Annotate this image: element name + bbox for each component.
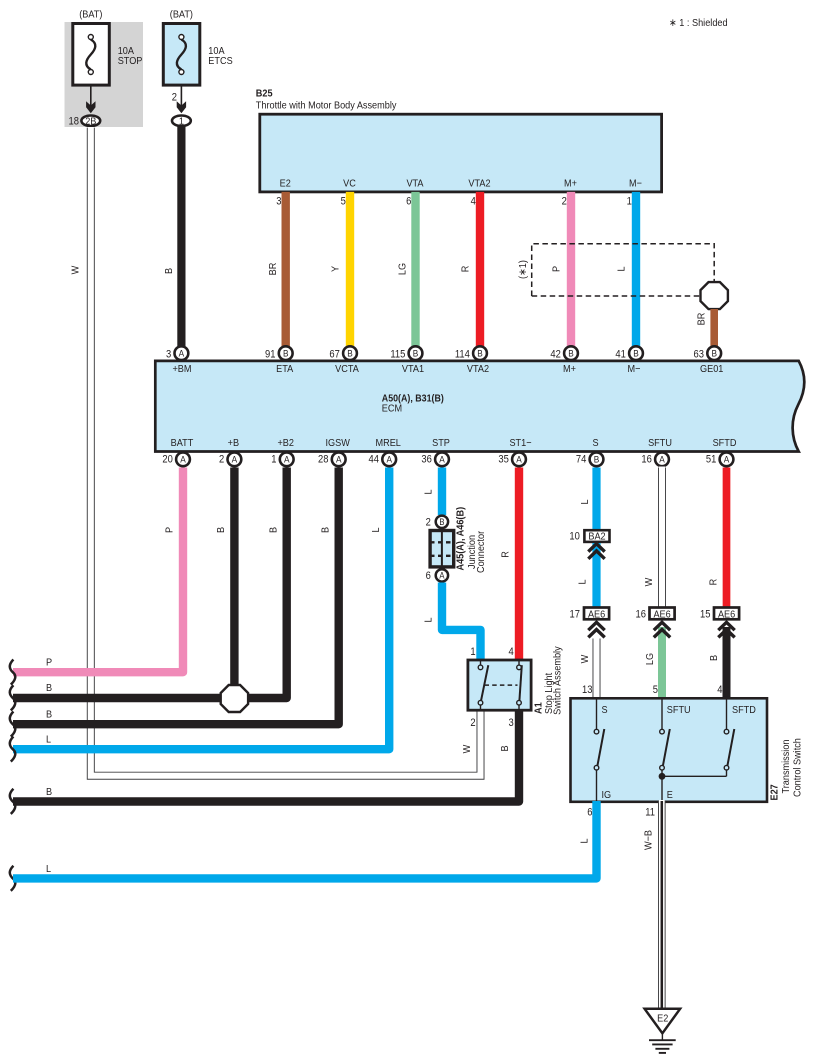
ECM bottom pin labels xyxy=(171,437,737,449)
ECM box xyxy=(155,361,804,452)
switch SFTD xyxy=(726,699,728,729)
svg-text:6: 6 xyxy=(406,196,411,208)
svg-text:W: W xyxy=(643,578,655,587)
wire BR E2->ETA xyxy=(282,192,290,347)
wire B from fuse ETCS to ECM +BM xyxy=(177,126,185,347)
svg-text:GE01: GE01 xyxy=(700,363,724,375)
svg-text:VC: VC xyxy=(343,178,356,190)
svg-text:3: 3 xyxy=(508,717,513,729)
svg-text:BR: BR xyxy=(695,312,707,325)
svg-text:17: 17 xyxy=(570,608,580,620)
svg-text:VTA2: VTA2 xyxy=(468,178,490,190)
svg-text:A: A xyxy=(439,571,444,581)
svg-text:BA2: BA2 xyxy=(588,531,605,543)
svg-text:LG: LG xyxy=(397,263,409,275)
wire L MREL xyxy=(13,468,389,750)
ECM top pin circles xyxy=(166,346,188,360)
wire LG VTA->VTA1 xyxy=(411,192,419,347)
svg-text:B: B xyxy=(708,655,720,661)
connector oval 2B (pin 18) xyxy=(69,115,101,127)
svg-text:41: 41 xyxy=(615,349,625,361)
svg-text:2: 2 xyxy=(172,92,177,104)
svg-text:67: 67 xyxy=(329,349,339,361)
svg-text:6: 6 xyxy=(426,570,431,582)
svg-text:SFTU: SFTU xyxy=(648,437,672,449)
B25 pin numbers xyxy=(276,196,632,208)
svg-text:AE6: AE6 xyxy=(588,608,605,620)
svg-text:W−B: W−B xyxy=(642,830,654,850)
svg-text:15: 15 xyxy=(700,608,710,620)
fuse F1 lead and arrow xyxy=(86,86,95,113)
svg-text:ST1−: ST1− xyxy=(509,437,531,449)
svg-text:A: A xyxy=(724,455,730,466)
svg-text:B: B xyxy=(267,527,279,533)
svg-text:4: 4 xyxy=(471,196,476,208)
svg-text:IG: IG xyxy=(602,789,612,801)
svg-text:P: P xyxy=(164,527,176,533)
svg-text:BATT: BATT xyxy=(171,437,194,449)
svg-text:E27: E27 xyxy=(769,784,781,800)
svg-text:VTA: VTA xyxy=(406,178,423,190)
svg-text:18: 18 xyxy=(69,115,79,127)
svg-text:3: 3 xyxy=(276,196,281,208)
svg-text:6: 6 xyxy=(587,807,592,819)
svg-text:L: L xyxy=(370,527,382,532)
wire end L2 xyxy=(10,863,51,891)
svg-text:B: B xyxy=(413,349,419,360)
svg-text:M+: M+ xyxy=(563,363,576,375)
svg-text:2: 2 xyxy=(470,717,475,729)
svg-text:L: L xyxy=(423,489,435,494)
svg-text:A: A xyxy=(284,455,290,466)
shield octagon xyxy=(701,282,728,309)
svg-text:M−: M− xyxy=(629,178,642,190)
svg-text:16: 16 xyxy=(636,608,646,620)
svg-text:A: A xyxy=(232,455,238,466)
svg-text:M−: M− xyxy=(628,363,641,375)
svg-text:(∗1): (∗1) xyxy=(517,260,529,279)
wire B horizontal to +B octagon xyxy=(13,694,234,702)
svg-text:115: 115 xyxy=(390,349,405,361)
svg-text:1: 1 xyxy=(271,454,276,466)
ground E2 xyxy=(645,1009,681,1053)
svg-text:L: L xyxy=(579,499,591,504)
wire end B1 xyxy=(10,682,52,710)
transmission control switch E27 box xyxy=(571,684,768,802)
chevrons below BA2 xyxy=(588,544,604,559)
svg-text:A45(A), A46(B): A45(A), A46(B) xyxy=(455,507,467,571)
svg-text:(BAT): (BAT) xyxy=(170,9,193,21)
svg-text:B: B xyxy=(46,709,52,721)
svg-text:51: 51 xyxy=(706,454,716,466)
svg-text:B: B xyxy=(633,349,639,360)
svg-text:42: 42 xyxy=(550,349,560,361)
svg-text:R: R xyxy=(707,578,719,585)
wire L STP lower to stop light switch xyxy=(442,583,481,660)
svg-text:44: 44 xyxy=(369,454,379,466)
svg-text:Y: Y xyxy=(330,266,342,272)
wire L from IG pin 6 xyxy=(13,801,597,878)
svg-text:E: E xyxy=(667,789,673,801)
svg-text:M+: M+ xyxy=(564,178,577,190)
svg-text:W: W xyxy=(579,655,591,664)
switch SFTU xyxy=(661,699,663,729)
svg-text:91: 91 xyxy=(265,349,275,361)
svg-text:A: A xyxy=(439,455,445,466)
svg-text:Control Switch: Control Switch xyxy=(792,738,804,797)
svg-text:B: B xyxy=(594,455,600,466)
svg-text:P: P xyxy=(46,657,52,669)
svg-text:2: 2 xyxy=(219,454,224,466)
svg-text:+B2: +B2 xyxy=(277,437,294,449)
wire R VTA2->VTA2 xyxy=(476,192,484,347)
svg-text:B: B xyxy=(568,349,574,360)
svg-text:36: 36 xyxy=(421,454,431,466)
svg-text:E2: E2 xyxy=(280,178,291,190)
connector oval 1 xyxy=(172,115,191,127)
wire W from fuse STOP to stop light switch pin 2 xyxy=(91,127,481,776)
svg-text:LG: LG xyxy=(644,653,656,665)
svg-text:VTA2: VTA2 xyxy=(467,363,489,375)
svg-text:74: 74 xyxy=(576,454,586,466)
svg-text:63: 63 xyxy=(694,349,704,361)
svg-text:B: B xyxy=(46,786,52,798)
wire L M- xyxy=(632,192,640,347)
svg-text:B: B xyxy=(283,349,289,360)
wire B +B2 xyxy=(240,468,287,699)
svg-text:STP: STP xyxy=(432,437,450,449)
pin numbers below transmission switch xyxy=(587,807,655,819)
ECM top pin labels xyxy=(172,363,723,375)
svg-text:B: B xyxy=(46,682,52,694)
wire L S to BA2 xyxy=(592,468,600,531)
svg-text:1: 1 xyxy=(627,196,632,208)
wire W AE6 to transmission S pin 13 xyxy=(593,638,601,699)
fuse STOP gray background xyxy=(65,22,144,127)
svg-text:B: B xyxy=(439,517,444,527)
svg-text:B: B xyxy=(347,349,353,360)
wire R ST1- to stop light switch pin 4 xyxy=(515,468,523,660)
wire B IGSW xyxy=(13,468,339,725)
junction octagon at +B xyxy=(221,685,248,712)
wire B AE6 to SFTD pin 4 xyxy=(723,627,731,699)
svg-text:W: W xyxy=(461,745,473,754)
svg-text:B: B xyxy=(319,527,331,533)
svg-text:A: A xyxy=(516,455,522,466)
svg-text:+BM: +BM xyxy=(172,363,191,375)
fuse F2 lead, pin 2 and arrow xyxy=(172,86,186,113)
svg-text:Switch Assembly: Switch Assembly xyxy=(552,646,564,715)
svg-text:VTA1: VTA1 xyxy=(402,363,424,375)
wire W-B from E pin 11 to ground xyxy=(658,800,666,1009)
svg-text:B: B xyxy=(477,349,483,360)
svg-text:ECM: ECM xyxy=(382,402,402,414)
B25 throttle body box xyxy=(256,88,662,192)
fuse F2 10A ETCS xyxy=(163,9,232,86)
svg-text:2: 2 xyxy=(426,517,431,529)
svg-text:Connector: Connector xyxy=(475,530,487,573)
svg-text:B: B xyxy=(711,349,717,360)
svg-text:P: P xyxy=(551,266,563,272)
svg-text:L: L xyxy=(423,617,435,622)
svg-text:B: B xyxy=(499,745,511,751)
wire P M+ xyxy=(567,192,575,347)
svg-text:SFTD: SFTD xyxy=(713,437,737,449)
connector BA2 pin 10 xyxy=(569,530,609,542)
svg-text:3: 3 xyxy=(166,349,171,361)
svg-text:13: 13 xyxy=(582,684,592,696)
svg-text:2: 2 xyxy=(562,196,567,208)
svg-text:B25: B25 xyxy=(256,88,273,100)
svg-text:S: S xyxy=(602,704,608,716)
svg-text:20: 20 xyxy=(162,454,172,466)
wire BR shield->GE01 xyxy=(710,309,718,347)
svg-text:35: 35 xyxy=(498,454,508,466)
svg-text:A: A xyxy=(179,349,185,360)
svg-text:114: 114 xyxy=(455,349,470,361)
svg-text:MREL: MREL xyxy=(376,437,402,449)
svg-text:Throttle with Motor Body Assem: Throttle with Motor Body Assembly xyxy=(256,100,397,112)
svg-text:A: A xyxy=(180,455,186,466)
stop light switch A1 box xyxy=(468,646,531,729)
svg-text:SFTD: SFTD xyxy=(732,704,756,716)
wire L STP upper xyxy=(438,468,446,516)
svg-text:IGSW: IGSW xyxy=(326,437,350,449)
connector AE6 pin 15 xyxy=(700,608,739,621)
svg-text:1: 1 xyxy=(179,115,184,127)
transmission switch labels xyxy=(769,738,804,801)
B25 pin labels xyxy=(280,178,642,190)
svg-text:4: 4 xyxy=(508,646,513,658)
svg-text:Transmission: Transmission xyxy=(780,739,792,793)
svg-text:R: R xyxy=(500,551,512,558)
svg-text:AE6: AE6 xyxy=(718,608,735,620)
link SFTD to E node xyxy=(726,770,728,776)
connector AE6 pin 17 xyxy=(570,608,610,621)
svg-text:L: L xyxy=(577,579,589,584)
svg-text:A: A xyxy=(386,455,392,466)
svg-text:L: L xyxy=(46,863,51,875)
svg-text:16: 16 xyxy=(641,454,651,466)
svg-text:BR: BR xyxy=(267,262,279,275)
shielded dashed box (*1) xyxy=(517,244,714,296)
svg-text:W: W xyxy=(70,266,82,275)
stop light switch labels xyxy=(533,646,564,715)
wire Y VC->VCTA xyxy=(346,192,354,347)
wire L BA2 to AE6 xyxy=(592,543,600,607)
junction connector labels xyxy=(455,507,488,573)
fuse F1 10A STOP xyxy=(73,9,143,86)
svg-text:ETA: ETA xyxy=(276,363,293,375)
svg-text:R: R xyxy=(460,265,472,272)
wire P BATT xyxy=(13,468,183,673)
svg-text:(BAT): (BAT) xyxy=(79,9,102,21)
wire B +B xyxy=(230,468,238,691)
svg-text:SFTU: SFTU xyxy=(667,704,691,716)
wire LG AE6 to SFTU pin 5 xyxy=(658,627,666,699)
svg-text:11: 11 xyxy=(645,807,655,819)
junction connector A45 xyxy=(426,516,454,582)
svg-text:AE6: AE6 xyxy=(653,608,670,620)
wire B from switch pin 3 xyxy=(13,710,519,802)
ECM bottom pin circles xyxy=(162,452,190,466)
wire R SFTD to AE6 xyxy=(723,468,731,608)
svg-text:A: A xyxy=(659,455,665,466)
svg-text:B: B xyxy=(215,527,227,533)
svg-text:+B: +B xyxy=(228,437,239,449)
svg-text:B: B xyxy=(163,268,175,274)
svg-text:5: 5 xyxy=(341,196,346,208)
wire end B2 xyxy=(10,709,52,737)
wire W SFTU to AE6 xyxy=(658,467,666,608)
wire end B3 xyxy=(10,786,52,814)
svg-text:28: 28 xyxy=(318,454,328,466)
svg-text:1: 1 xyxy=(470,646,475,658)
wire end P xyxy=(10,657,52,685)
wire end L xyxy=(10,734,51,762)
connector AE6 pin 16 xyxy=(636,608,675,621)
svg-text:VCTA: VCTA xyxy=(335,363,359,375)
junction dot E xyxy=(659,773,666,780)
svg-text:4: 4 xyxy=(717,684,722,696)
svg-text:ETCS: ETCS xyxy=(208,55,232,67)
svg-text:L: L xyxy=(579,838,591,843)
svg-text:L: L xyxy=(46,734,51,746)
svg-text:∗ 1 : Shielded: ∗ 1 : Shielded xyxy=(669,17,728,29)
svg-text:2B: 2B xyxy=(85,115,96,127)
switch S xyxy=(596,699,598,729)
svg-text:5: 5 xyxy=(653,684,658,696)
svg-text:A: A xyxy=(336,455,342,466)
svg-text:S: S xyxy=(592,437,598,449)
svg-text:E2: E2 xyxy=(657,1012,668,1024)
svg-text:L: L xyxy=(616,266,628,271)
svg-text:STOP: STOP xyxy=(118,55,143,67)
svg-text:10: 10 xyxy=(569,531,579,543)
